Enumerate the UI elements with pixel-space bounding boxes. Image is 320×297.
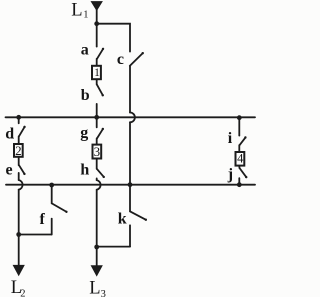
svg-text:a: a bbox=[81, 42, 89, 59]
label L3 bbox=[89, 279, 106, 297]
wire hop to bus II bbox=[129, 122, 131, 184]
wire f bottom to L2 node bbox=[19, 234, 52, 236]
svg-text:2: 2 bbox=[20, 289, 25, 297]
incoming line arrow L1 bbox=[91, 2, 102, 11]
svg-text:L: L bbox=[71, 1, 82, 21]
disconnector g bbox=[97, 117, 104, 144]
svg-text:3: 3 bbox=[101, 289, 106, 297]
wire top node to c branch bbox=[97, 24, 130, 52]
wire k bottom to L3 node bbox=[97, 246, 130, 248]
disconnector a bbox=[97, 24, 105, 65]
wire L2 node to arrow bbox=[18, 235, 20, 266]
wire L3 node to arrow bbox=[96, 247, 98, 266]
svg-text:k: k bbox=[118, 211, 127, 228]
node: bus II / f branch dot bbox=[49, 183, 54, 188]
node: bus I / right branch dot bbox=[237, 115, 242, 120]
svg-text:L: L bbox=[89, 279, 100, 297]
disconnector e bbox=[19, 157, 26, 180]
node: bus II / c-k branch dot bbox=[128, 182, 133, 187]
bus I bbox=[6, 116, 256, 118]
disconnector c bbox=[130, 52, 144, 66]
disconnector j bbox=[239, 166, 247, 185]
disconnector d bbox=[19, 117, 26, 143]
wire c to bus I hop bbox=[129, 66, 131, 113]
label L2 bbox=[11, 278, 26, 297]
node: top junction dot bbox=[94, 21, 99, 26]
svg-text:e: e bbox=[6, 161, 13, 178]
svg-text:i: i bbox=[228, 130, 233, 147]
svg-text:h: h bbox=[80, 161, 89, 178]
svg-text:c: c bbox=[117, 51, 124, 68]
breaker box 1 bbox=[92, 66, 101, 79]
breaker box 4 bbox=[236, 152, 245, 166]
disconnector f bbox=[52, 185, 68, 235]
svg-text:1: 1 bbox=[94, 67, 100, 79]
svg-text:1: 1 bbox=[83, 10, 88, 21]
hop: c branch crosses bus I (no connection) bbox=[130, 113, 135, 123]
svg-text:d: d bbox=[5, 126, 14, 143]
breaker box 3 bbox=[93, 145, 102, 159]
svg-text:b: b bbox=[81, 87, 90, 104]
node: bus I / left branch dot bbox=[16, 115, 21, 120]
svg-text:3: 3 bbox=[94, 144, 101, 159]
svg-text:f: f bbox=[40, 211, 46, 228]
node: L2 / f branch dot bbox=[16, 232, 21, 237]
node: bus II / right branch dot bbox=[237, 182, 242, 187]
outgoing line arrow L3 bbox=[91, 266, 102, 276]
disconnector h bbox=[97, 159, 105, 180]
disconnector i bbox=[239, 118, 246, 152]
svg-text:j: j bbox=[227, 166, 233, 183]
wire hop to L3 node bbox=[96, 190, 98, 247]
wire hop to L2 node bbox=[18, 190, 20, 235]
wire L1 arrow to top node bbox=[96, 10, 98, 24]
svg-text:g: g bbox=[80, 124, 88, 141]
outgoing line arrow L2 bbox=[13, 265, 24, 275]
disconnector b bbox=[97, 80, 104, 118]
disconnector k bbox=[130, 185, 147, 247]
svg-text:2: 2 bbox=[15, 143, 22, 158]
hop: middle feeder crosses bus II (no connection) bbox=[97, 180, 101, 190]
label L1 bbox=[71, 1, 88, 21]
node: L3 / k branch dot bbox=[94, 245, 99, 250]
node: bus I / middle branch dot bbox=[94, 115, 99, 120]
breaker box 2 bbox=[14, 144, 23, 157]
hop: left feeder crosses bus II (no connection) bbox=[19, 180, 23, 190]
svg-text:4: 4 bbox=[237, 151, 244, 165]
bus II bbox=[6, 184, 255, 186]
